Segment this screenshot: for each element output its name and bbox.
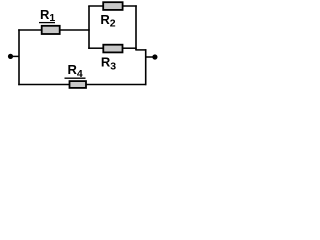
wire parallel-block left vertical bbox=[88, 6, 90, 49]
wire jog from parallel block to right vertical bbox=[135, 49, 146, 51]
wire left terminal stub bbox=[11, 55, 20, 57]
wire bottom branch left of R4 bbox=[18, 84, 70, 86]
wire top branch left of R1 bbox=[18, 29, 42, 31]
svg-text:R2: R2 bbox=[100, 12, 115, 29]
wire R3 branch left bbox=[88, 47, 103, 49]
underline of label R1 bbox=[39, 22, 55, 24]
wire R2 branch right bbox=[123, 5, 137, 7]
svg-text:R4: R4 bbox=[68, 62, 83, 80]
wire top branch right of R1 bbox=[60, 29, 90, 31]
node B (right terminal dot) bbox=[152, 54, 157, 59]
underline of label R4 bbox=[65, 77, 86, 79]
svg-text:R3: R3 bbox=[101, 55, 116, 73]
wire right terminal stub bbox=[146, 56, 155, 58]
svg-text:R1: R1 bbox=[40, 7, 55, 24]
wire left vertical bbox=[18, 29, 20, 85]
resistor R3 bbox=[103, 45, 122, 53]
wire R3 branch right to right vertical bbox=[123, 47, 137, 49]
wire right vertical bbox=[145, 49, 147, 85]
node A (left terminal dot) bbox=[8, 54, 13, 59]
resistor R4 bbox=[70, 81, 87, 88]
wire bottom branch right of R4 bbox=[86, 84, 146, 86]
resistor R1 bbox=[42, 26, 60, 34]
wire parallel-block right vertical bbox=[135, 5, 137, 50]
wire R2 branch left bbox=[88, 5, 103, 7]
resistor R2 bbox=[103, 2, 122, 10]
